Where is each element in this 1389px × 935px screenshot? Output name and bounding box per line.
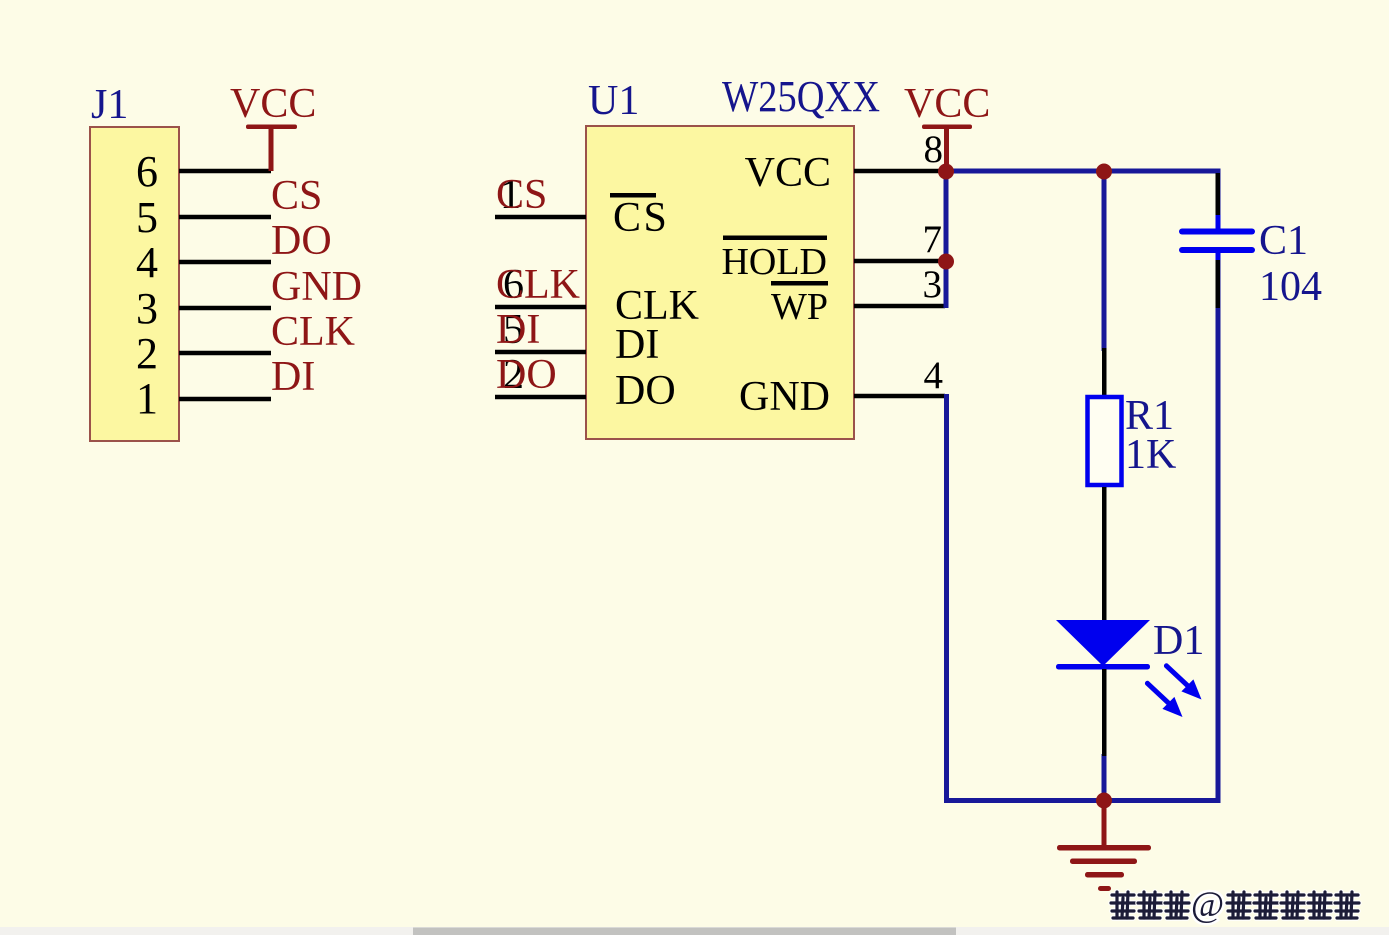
J1 pin number 3 xyxy=(136,284,158,333)
wire J1 pin 3 xyxy=(179,306,271,311)
junction dot bottom rail / ground xyxy=(1096,793,1112,809)
wire U1 pin 8 (VCC) xyxy=(854,169,944,174)
wire J1 pin 5 xyxy=(179,215,271,220)
svg-text:J1: J1 xyxy=(91,82,128,128)
svg-text:DI: DI xyxy=(496,307,540,353)
svg-text:DO: DO xyxy=(496,352,557,398)
svg-text:1K: 1K xyxy=(1125,432,1176,478)
power VCC symbol (right) xyxy=(904,81,990,171)
net label DO (J1) xyxy=(271,218,332,264)
U1 pin 1 number (under CS label) xyxy=(500,172,521,218)
svg-text:DI: DI xyxy=(271,354,315,400)
wire J1 pin 4 xyxy=(179,260,271,265)
svg-text:5: 5 xyxy=(136,193,158,242)
wire VCC rail horizontal xyxy=(944,169,1221,174)
wire J1 pin 6 xyxy=(179,169,271,174)
net label DI (J1) xyxy=(271,354,315,400)
wire J1 pin 1 xyxy=(179,397,271,402)
J1 pin number 1 xyxy=(136,374,158,423)
power VCC symbol (J1) xyxy=(230,81,316,171)
ground symbol xyxy=(1057,800,1151,891)
wire middle branch vertical upper (to R1) xyxy=(1102,171,1107,351)
U1 pin name CS with overline xyxy=(610,193,669,241)
junction dot VCC rail / R1 branch xyxy=(1096,164,1112,180)
label 1K xyxy=(1125,432,1176,478)
svg-text:@: @ xyxy=(1191,884,1224,924)
wire J1 pin 2 xyxy=(179,351,271,356)
svg-text:U1: U1 xyxy=(588,78,639,124)
wire bottom rail horizontal xyxy=(944,798,1221,803)
U1 pin name WP with overline xyxy=(771,281,828,328)
wire middle branch vertical lower (LED to bottom rail) xyxy=(1102,754,1107,801)
connector J1 body xyxy=(90,127,179,441)
svg-text:3: 3 xyxy=(923,263,943,306)
svg-text:4: 4 xyxy=(924,354,944,397)
U1 value W25QXX xyxy=(722,72,880,121)
svg-text:6: 6 xyxy=(136,147,158,196)
svg-text:GND: GND xyxy=(271,264,362,310)
svg-text:CS: CS xyxy=(496,172,547,218)
J1 pin number 2 xyxy=(136,329,158,378)
U1 pin 8 number xyxy=(924,128,944,171)
net label CS (J1) xyxy=(271,173,322,219)
wire U1 CS pin xyxy=(495,215,586,220)
svg-text:DO: DO xyxy=(615,368,676,414)
U1 pin 3 number xyxy=(923,263,943,306)
svg-text:1: 1 xyxy=(136,374,158,423)
wire right branch vertical upper (C1 branch) xyxy=(1216,171,1221,231)
scrollbar track xyxy=(0,927,1389,935)
wire right branch vertical lower (C1 branch) xyxy=(1216,250,1221,803)
J1 pin number 4 xyxy=(136,238,158,287)
svg-text:CS: CS xyxy=(613,195,669,241)
svg-text:VCC: VCC xyxy=(230,81,316,127)
capacitor C1 bottom plate xyxy=(1179,247,1255,253)
capacitor C1 top plate xyxy=(1179,229,1255,235)
svg-text:CS: CS xyxy=(271,173,322,219)
U1 designator xyxy=(588,78,639,124)
svg-text:4: 4 xyxy=(136,238,158,287)
svg-text:D1: D1 xyxy=(1153,618,1204,664)
svg-text:W25QXX: W25QXX xyxy=(722,72,880,121)
U1 pin 5 number (under DI label) xyxy=(503,307,524,353)
svg-text:VCC: VCC xyxy=(745,150,831,196)
U1 pin name HOLD with overline xyxy=(721,236,827,284)
svg-text:CLK: CLK xyxy=(496,262,580,308)
net label GND (J1) xyxy=(271,264,362,310)
LED D1 cathode bar xyxy=(1056,664,1150,670)
U1 pin 7 number xyxy=(923,218,943,261)
U1 pin name CLK xyxy=(615,283,699,329)
U1 pin name DI xyxy=(615,322,659,368)
svg-text:8: 8 xyxy=(924,128,944,171)
net label CLK (J1) xyxy=(271,309,355,355)
U1 pin 2 number (under DO label) xyxy=(503,352,524,398)
U1 pin 6 number (under CLK label) xyxy=(503,262,524,308)
U1 pin name VCC xyxy=(745,150,831,196)
label C1 xyxy=(1259,218,1308,264)
svg-text:WP: WP xyxy=(771,286,828,328)
svg-text:104: 104 xyxy=(1259,264,1322,310)
net label CS (U1) xyxy=(496,172,547,218)
junction dot at pin7 xyxy=(938,254,954,270)
wire vertical pin8 to pin7 to WP corner xyxy=(944,171,949,308)
LED D1 arrow 1 xyxy=(1166,666,1201,700)
svg-text:2: 2 xyxy=(136,329,158,378)
svg-text:C1: C1 xyxy=(1259,218,1308,264)
LED cathode wire down (black) xyxy=(1102,669,1107,756)
svg-text:GND: GND xyxy=(739,374,830,420)
J1 pin number 5 xyxy=(136,193,158,242)
label 104 xyxy=(1259,264,1322,310)
wire U1 DI pin xyxy=(495,350,586,355)
svg-text:7: 7 xyxy=(923,218,943,261)
svg-text:DO: DO xyxy=(271,218,332,264)
junction dot at pin8/VCC xyxy=(938,164,954,180)
wire vertical GND pin4 down xyxy=(944,394,949,803)
wire R1 to LED (black) xyxy=(1102,487,1107,622)
svg-text:VCC: VCC xyxy=(904,81,990,127)
scrollbar thumb xyxy=(413,928,956,935)
svg-text:DI: DI xyxy=(615,322,659,368)
net label DO (U1) xyxy=(496,352,557,398)
capacitor C1 bottom stub (blue) xyxy=(1216,252,1221,260)
label R1 xyxy=(1125,393,1174,439)
svg-text:3: 3 xyxy=(136,284,158,333)
LED D1 arrow 2 xyxy=(1147,683,1182,717)
resistor R1 top pin (black) xyxy=(1102,348,1107,396)
resistor R1 body xyxy=(1088,397,1122,485)
U1 pin 4 number xyxy=(924,354,944,397)
wire U1 pin 3 (WP) xyxy=(854,304,945,309)
capacitor C1 top pin (black) xyxy=(1216,173,1221,215)
wire U1 DO pin xyxy=(495,395,586,400)
net label CLK (U1) xyxy=(496,262,580,308)
J1 pin number 6 xyxy=(136,147,158,196)
IC U1 body xyxy=(586,126,854,439)
J1 designator xyxy=(91,82,128,128)
wire U1 pin 7 (HOLD) xyxy=(854,259,944,264)
label D1 xyxy=(1153,618,1204,664)
wire U1 pin 4 (GND) xyxy=(854,394,945,399)
LED D1 triangle xyxy=(1056,620,1150,666)
U1 pin name GND xyxy=(739,374,830,420)
capacitor C1 top stub (blue) xyxy=(1216,215,1221,230)
net label DI (U1) xyxy=(496,307,540,353)
wire U1 CLK pin xyxy=(495,305,586,310)
U1 pin name DO xyxy=(615,368,676,414)
svg-text:CLK: CLK xyxy=(271,309,355,355)
svg-text:HOLD: HOLD xyxy=(721,241,827,283)
capacitor C1 bottom pin (black) xyxy=(1216,260,1221,308)
